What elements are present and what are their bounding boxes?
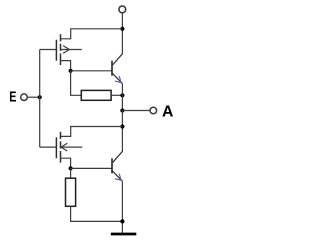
node E (gate bus tee) (38, 95, 42, 99)
wire (70, 28, 122, 30)
terminal E (input) (21, 94, 28, 101)
transistor Q1 (NPN, top) (112, 54, 122, 96)
wire (111, 94, 122, 96)
wire (M1 source) (61, 61, 71, 71)
wire (70, 168, 72, 178)
wire (70, 126, 122, 128)
svg-text:E: E (9, 88, 16, 105)
node (M1 source / Q1 base) (69, 69, 73, 73)
wire (27, 96, 39, 98)
wire (71, 167, 112, 169)
svg-text:A: A (162, 104, 173, 121)
wire (121, 13, 123, 54)
transistor M1 (p-channel MOSFET, top) (40, 34, 82, 65)
resistor R2 (66, 178, 76, 206)
node (M2 drain tee) (120, 124, 124, 128)
terminal (supply, top) (119, 6, 126, 13)
node (emitter / R1) (120, 93, 124, 97)
ground (111, 233, 137, 236)
wire (121, 95, 123, 110)
node (junction top wire / supply) (120, 27, 124, 31)
wire (71, 71, 82, 96)
transistor Q2 (NPN, bottom) (112, 151, 122, 232)
node (emitter / ground wire) (120, 219, 124, 223)
wire (71, 206, 123, 221)
wire (61, 127, 71, 137)
wire (122, 110, 150, 112)
wire (gate bus) (39, 50, 41, 148)
wire (M2 source) (61, 158, 71, 168)
wire (61, 29, 71, 39)
resistor R1 (81, 90, 111, 100)
wire (71, 70, 112, 72)
node (M2 source / Q2 base) (69, 166, 73, 170)
terminal A (output) (150, 107, 157, 114)
transistor M2 (n-channel MOSFET, bottom) (40, 132, 83, 163)
node (output branch) (120, 108, 124, 112)
wire (output bus down) (121, 111, 123, 152)
